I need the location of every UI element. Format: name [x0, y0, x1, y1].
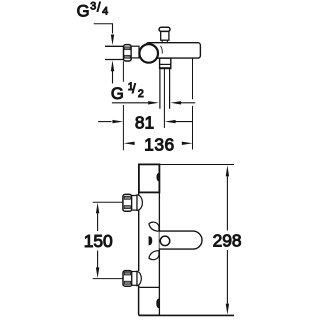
diverter knob neck [162, 40, 167, 42]
lower connector [132, 272, 137, 286]
diverter knob top [161, 30, 169, 40]
inlet pipe top view [105, 46, 124, 59]
lower union nut front view [123, 271, 132, 287]
body left edge [138, 192, 140, 287]
body top escutcheon front view [139, 164, 160, 192]
arrow G3/4 down [111, 35, 114, 46]
arrow 136 left [124, 142, 135, 145]
lower dome boss [137, 271, 141, 286]
svg-text:298: 298 [213, 230, 242, 250]
extension line wall plane [122, 61, 124, 150]
extension line spout end [192, 58, 194, 149]
arrow G3/4 up [111, 60, 114, 71]
svg-text:4: 4 [102, 6, 108, 18]
handle top curl [149, 222, 159, 231]
dimension 298 [226, 177, 228, 304]
svg-text:G: G [111, 84, 124, 103]
arrow 136 right [182, 142, 193, 145]
spout screw recess [156, 298, 159, 308]
arrow 81 right [165, 120, 176, 123]
leader G1/2 with arrow right [112, 102, 148, 104]
connector between nut and thermostat handle [131, 46, 139, 58]
svg-text:150: 150 [84, 231, 113, 251]
svg-text:/: / [132, 82, 136, 96]
svg-text:G: G [77, 1, 90, 20]
arrow G1/2 opposing [170, 101, 181, 104]
arrow 298 down [226, 304, 229, 315]
hose center line / 81 extension [163, 69, 165, 128]
thermostat handle circle top view [139, 44, 158, 63]
escutcheon tick arc [161, 46, 163, 54]
upper union nut front view [123, 194, 132, 211]
extension line 298 top [160, 164, 235, 166]
dimension 150 [93, 201, 123, 203]
lever handle pill [160, 231, 203, 249]
svg-text:81: 81 [135, 112, 154, 132]
handle bottom curl [149, 251, 159, 260]
spout section front view [139, 286, 160, 288]
diverter knob cap [159, 27, 170, 31]
upper dome boss [137, 195, 142, 211]
handle button circle [160, 236, 170, 246]
temperature stop dot [149, 236, 153, 245]
body right edge [158, 192, 160, 315]
faucet body top view [146, 43, 200, 58]
shower outlet fitting [160, 58, 171, 68]
svg-text:3: 3 [90, 1, 96, 13]
arrow 150 up [96, 203, 99, 214]
upper connector [132, 196, 137, 211]
dimension 81 row [98, 121, 111, 123]
union nut top view [124, 45, 132, 61]
svg-text:/: / [97, 0, 101, 14]
svg-text:2: 2 [138, 88, 144, 100]
svg-text:136: 136 [144, 134, 175, 154]
extension line 298 bottom [160, 314, 235, 316]
screw recess upper [156, 173, 159, 182]
shower hose pipe lines [160, 69, 170, 109]
arrow 298 up [226, 165, 229, 176]
arrow 150 down [96, 267, 99, 278]
leader line G3/4 [94, 24, 113, 34]
arrow 81 left [112, 120, 123, 123]
arrow G3/4 lower stem [112, 71, 114, 84]
